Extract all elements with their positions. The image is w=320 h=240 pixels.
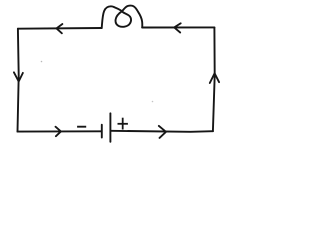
scan speck: [152, 101, 154, 103]
arrow bottom-right (current right): [159, 126, 166, 138]
coil L1: [102, 6, 143, 28]
arrow top-right (current left): [174, 23, 181, 32]
arrow left (current down): [14, 72, 23, 81]
wire bottom-left segment: [18, 130, 102, 132]
battery plate negative (short): [101, 125, 103, 138]
label plus: [118, 118, 128, 130]
wire bottom-right segment: [111, 131, 213, 132]
wire right vertical: [213, 27, 215, 131]
wire left vertical: [18, 29, 19, 132]
label minus: [77, 126, 86, 128]
arrow bottom-left (current right): [56, 127, 61, 137]
battery B1: [102, 113, 111, 142]
arrow top-left (current left): [57, 24, 63, 33]
battery plate positive (long): [109, 113, 111, 142]
wire top-right segment: [142, 26, 214, 28]
arrow right (current up): [210, 73, 219, 83]
scan speck: [41, 61, 43, 63]
wire top-left segment: [18, 27, 102, 30]
